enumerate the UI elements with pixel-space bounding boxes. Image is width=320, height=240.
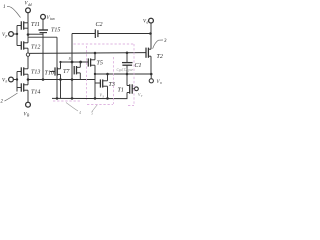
node small circle under T12 <box>26 53 29 56</box>
annotation box left edge x86.5 <box>86 46 88 100</box>
svg-text:T7: T7 <box>63 69 70 75</box>
node x81 y62 <box>79 61 82 64</box>
wire x72 down to rail <box>71 62 73 98</box>
wire output rail y74 <box>95 73 151 75</box>
wire Vp to gate line <box>13 33 17 35</box>
transistor T10 <box>50 62 61 98</box>
node rail x72 <box>71 97 74 100</box>
node rail x127 <box>126 52 129 55</box>
wire T12 circle to T13 source <box>27 56 29 69</box>
node C2 rail right corner <box>149 32 152 35</box>
wire inverter1 out down column x56 <box>56 37 58 98</box>
svg-text:C2: C2 <box>96 22 103 28</box>
svg-text:n: n <box>6 80 8 84</box>
callout leader 2 <box>5 93 18 101</box>
capacitor C2 <box>95 29 98 38</box>
wire y62 <box>61 61 89 63</box>
callout leader 5 <box>92 105 98 112</box>
wire gate line inverter1 <box>16 26 18 46</box>
wire Vo stub <box>150 74 152 78</box>
node inverter2 gate junction <box>16 78 18 80</box>
transistor T1 mirrored with gate terminal <box>127 74 135 99</box>
terminal small gate circle <box>135 87 139 91</box>
svg-text:T2: T2 <box>157 54 163 60</box>
wire floating node lower line <box>28 36 57 38</box>
svg-text:d: d <box>147 21 149 25</box>
svg-text:tun: tun <box>50 17 55 21</box>
node inverter1 output junction <box>27 33 30 36</box>
node x72 on inv2 out <box>71 78 74 81</box>
wire mid rail y53 <box>30 52 146 55</box>
wire Vn to gate line <box>13 79 17 81</box>
transistor T14 <box>17 80 28 103</box>
transistor T5 <box>88 53 95 98</box>
wire Vdd to T11 source <box>27 13 29 23</box>
svg-text:C1: C1 <box>135 63 142 69</box>
svg-text:p: p <box>5 34 8 38</box>
terminal Vo <box>149 79 153 83</box>
annotation box bottom segment middle <box>87 104 113 106</box>
svg-text:o: o <box>160 81 162 85</box>
transistor T7 <box>74 62 80 80</box>
svg-text:dd: dd <box>28 3 32 7</box>
transistor T2 <box>146 23 151 74</box>
wire tunneling cap down long vertical <box>42 33 44 80</box>
svg-text:T1: T1 <box>118 88 124 94</box>
wire Vtun down to cap T15 <box>42 19 44 30</box>
terminal Vd top-right <box>149 18 154 23</box>
transistor T11 <box>17 21 28 34</box>
svg-text:5: 5 <box>91 111 93 116</box>
annotation box edge x113.5 <box>113 57 115 104</box>
annotation box bottom corner right <box>128 105 134 107</box>
terminal VB <box>26 102 31 107</box>
annotation box bottom segment left <box>53 100 80 102</box>
svg-text:T13: T13 <box>31 70 40 76</box>
callout leader 3 <box>153 40 163 49</box>
svg-text:1: 1 <box>3 5 6 10</box>
terminal Vtun <box>41 14 46 19</box>
annotation box top edge <box>74 43 135 45</box>
node rail x56 <box>56 97 59 100</box>
terminal Vn <box>9 77 14 82</box>
terminal Vp <box>9 32 14 37</box>
node T10 drain on inv2 out <box>59 78 62 81</box>
svg-text:T5: T5 <box>97 61 103 67</box>
wire inverter1 output to tunneling cap node <box>28 33 44 35</box>
callout leader 4 <box>66 103 78 112</box>
wire bottom rail <box>52 97 127 99</box>
transistor T13 <box>17 67 28 79</box>
svg-text:T15: T15 <box>51 28 60 34</box>
node x72 y62 <box>71 61 74 64</box>
transistor T12 <box>17 35 28 53</box>
capacitor T15 tunneling junction <box>39 30 49 33</box>
terminal Vdd top-left <box>26 8 31 13</box>
svg-text:T11: T11 <box>31 22 40 28</box>
node inverter1 gate junction <box>16 33 18 35</box>
node x43 on inverter2 out <box>42 78 45 81</box>
annotation box right edge x134 <box>133 44 135 106</box>
svg-text:4: 4 <box>79 110 81 115</box>
wire inverter2 output right <box>28 79 95 81</box>
node x95 y74 <box>94 73 96 75</box>
node x127 y74 <box>126 73 129 76</box>
callout leader 1 <box>7 6 21 17</box>
node corner y62 left <box>59 61 61 63</box>
capacitor C1 <box>122 53 133 74</box>
node x107.5 y74 <box>106 73 109 76</box>
node x152 y74 <box>150 73 153 76</box>
svg-text:T12: T12 <box>31 45 40 51</box>
node rail x95 <box>94 97 97 100</box>
transistor T3 <box>95 74 108 98</box>
svg-text:T10: T10 <box>45 71 54 77</box>
wire C2 rail left turn down <box>71 34 73 63</box>
node rail x95 <box>94 52 97 55</box>
svg-text:T14: T14 <box>31 89 40 96</box>
wire C2 line top rail <box>72 33 95 35</box>
wire gate line inverter2 <box>16 72 18 92</box>
node rail x107.5 <box>106 97 109 100</box>
node inverter2 output <box>27 78 30 81</box>
svg-text:T3: T3 <box>109 82 115 88</box>
